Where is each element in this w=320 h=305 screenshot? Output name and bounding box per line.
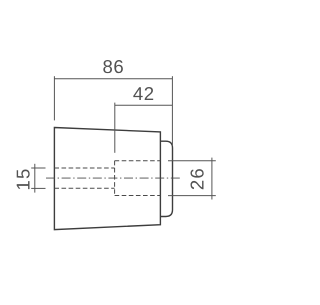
svg-text:15: 15	[13, 167, 34, 190]
svg-text:42: 42	[133, 83, 155, 104]
svg-text:86: 86	[102, 56, 124, 77]
svg-text:26: 26	[187, 167, 208, 190]
